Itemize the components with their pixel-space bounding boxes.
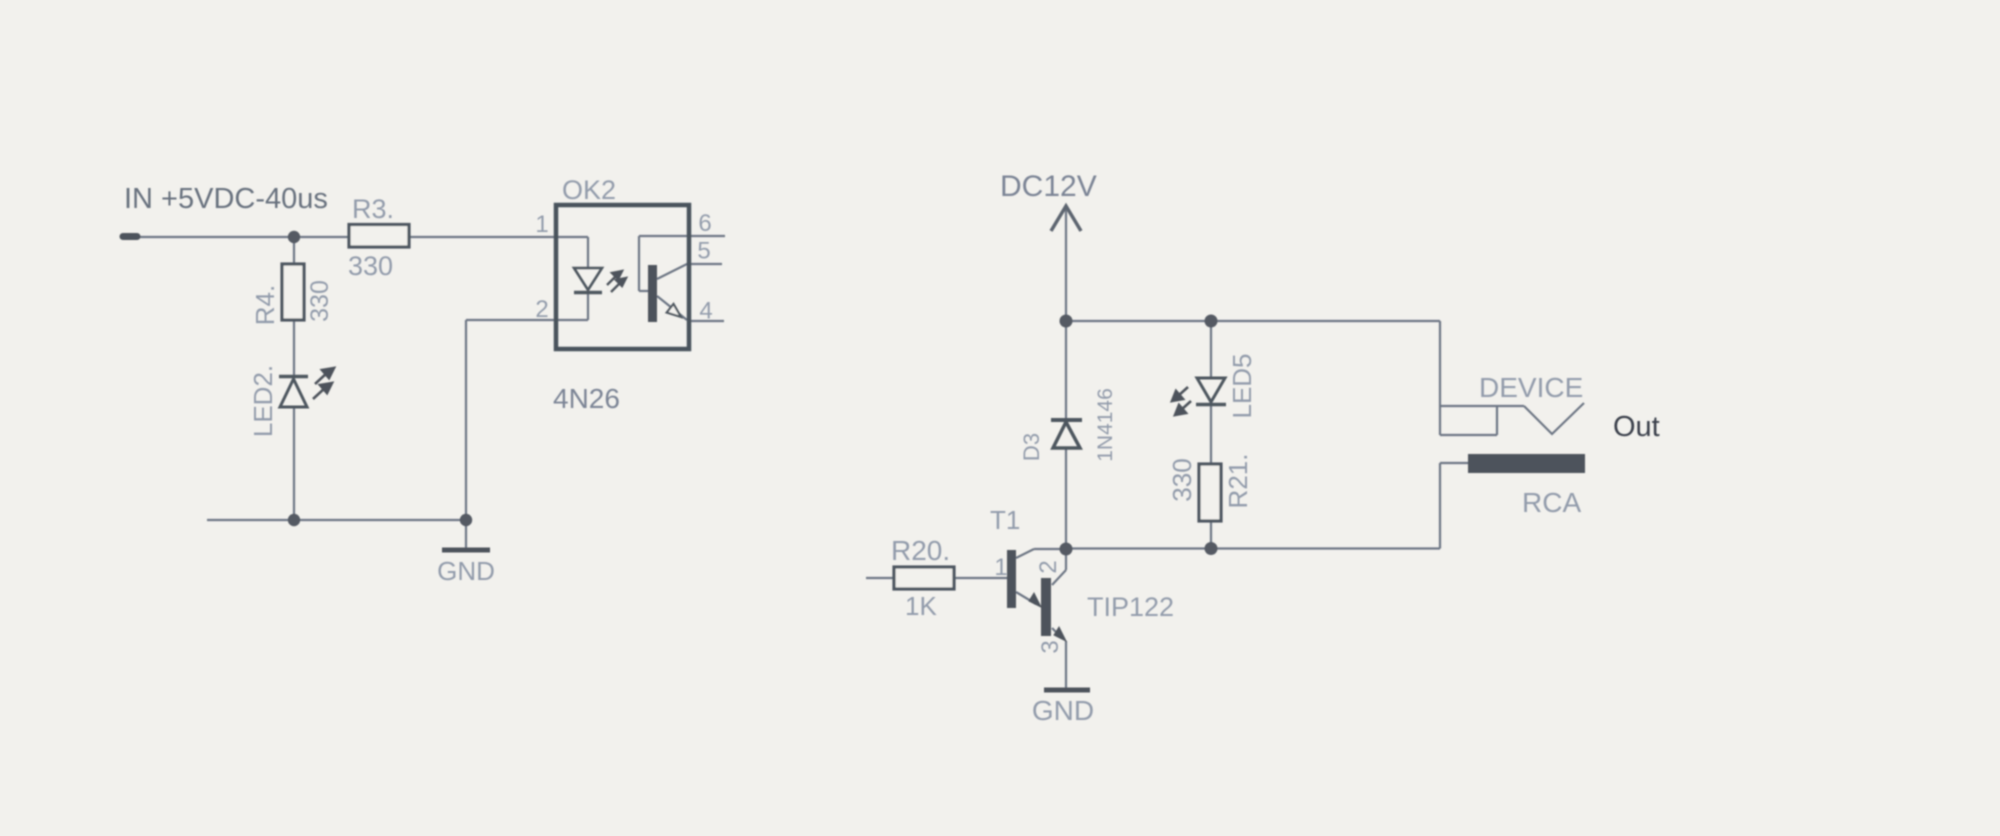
svg-text:TIP122: TIP122: [1087, 592, 1174, 622]
svg-text:DC12V: DC12V: [1000, 170, 1097, 203]
svg-text:R21.: R21.: [1223, 454, 1253, 509]
svg-text:1: 1: [994, 554, 1007, 581]
svg-text:4: 4: [699, 298, 712, 325]
svg-text:T1: T1: [990, 505, 1020, 535]
svg-text:Out: Out: [1613, 411, 1660, 443]
svg-text:4N26: 4N26: [553, 383, 620, 414]
svg-text:3: 3: [1037, 640, 1064, 653]
svg-text:R3.: R3.: [352, 194, 394, 224]
svg-text:DEVICE: DEVICE: [1479, 372, 1583, 403]
svg-text:2: 2: [1035, 560, 1062, 573]
svg-text:1K: 1K: [905, 591, 937, 621]
svg-text:1N4146: 1N4146: [1094, 388, 1117, 462]
svg-text:6: 6: [698, 210, 711, 237]
svg-text:330: 330: [306, 280, 334, 322]
svg-text:LED5: LED5: [1227, 353, 1257, 418]
svg-text:330: 330: [1167, 458, 1197, 501]
svg-text:LED2.: LED2.: [248, 365, 278, 437]
svg-text:2: 2: [535, 296, 548, 323]
svg-text:IN +5VDC-40us: IN +5VDC-40us: [124, 183, 328, 215]
svg-text:R20.: R20.: [891, 535, 950, 566]
svg-text:R4.: R4.: [250, 285, 280, 325]
svg-text:RCA: RCA: [1522, 487, 1581, 518]
svg-text:OK2: OK2: [562, 175, 616, 205]
svg-text:GND: GND: [437, 556, 495, 586]
svg-text:D3: D3: [1019, 433, 1044, 461]
svg-text:330: 330: [348, 251, 393, 281]
svg-text:GND: GND: [1032, 695, 1094, 726]
svg-text:1: 1: [535, 211, 548, 238]
svg-text:5: 5: [697, 238, 710, 265]
